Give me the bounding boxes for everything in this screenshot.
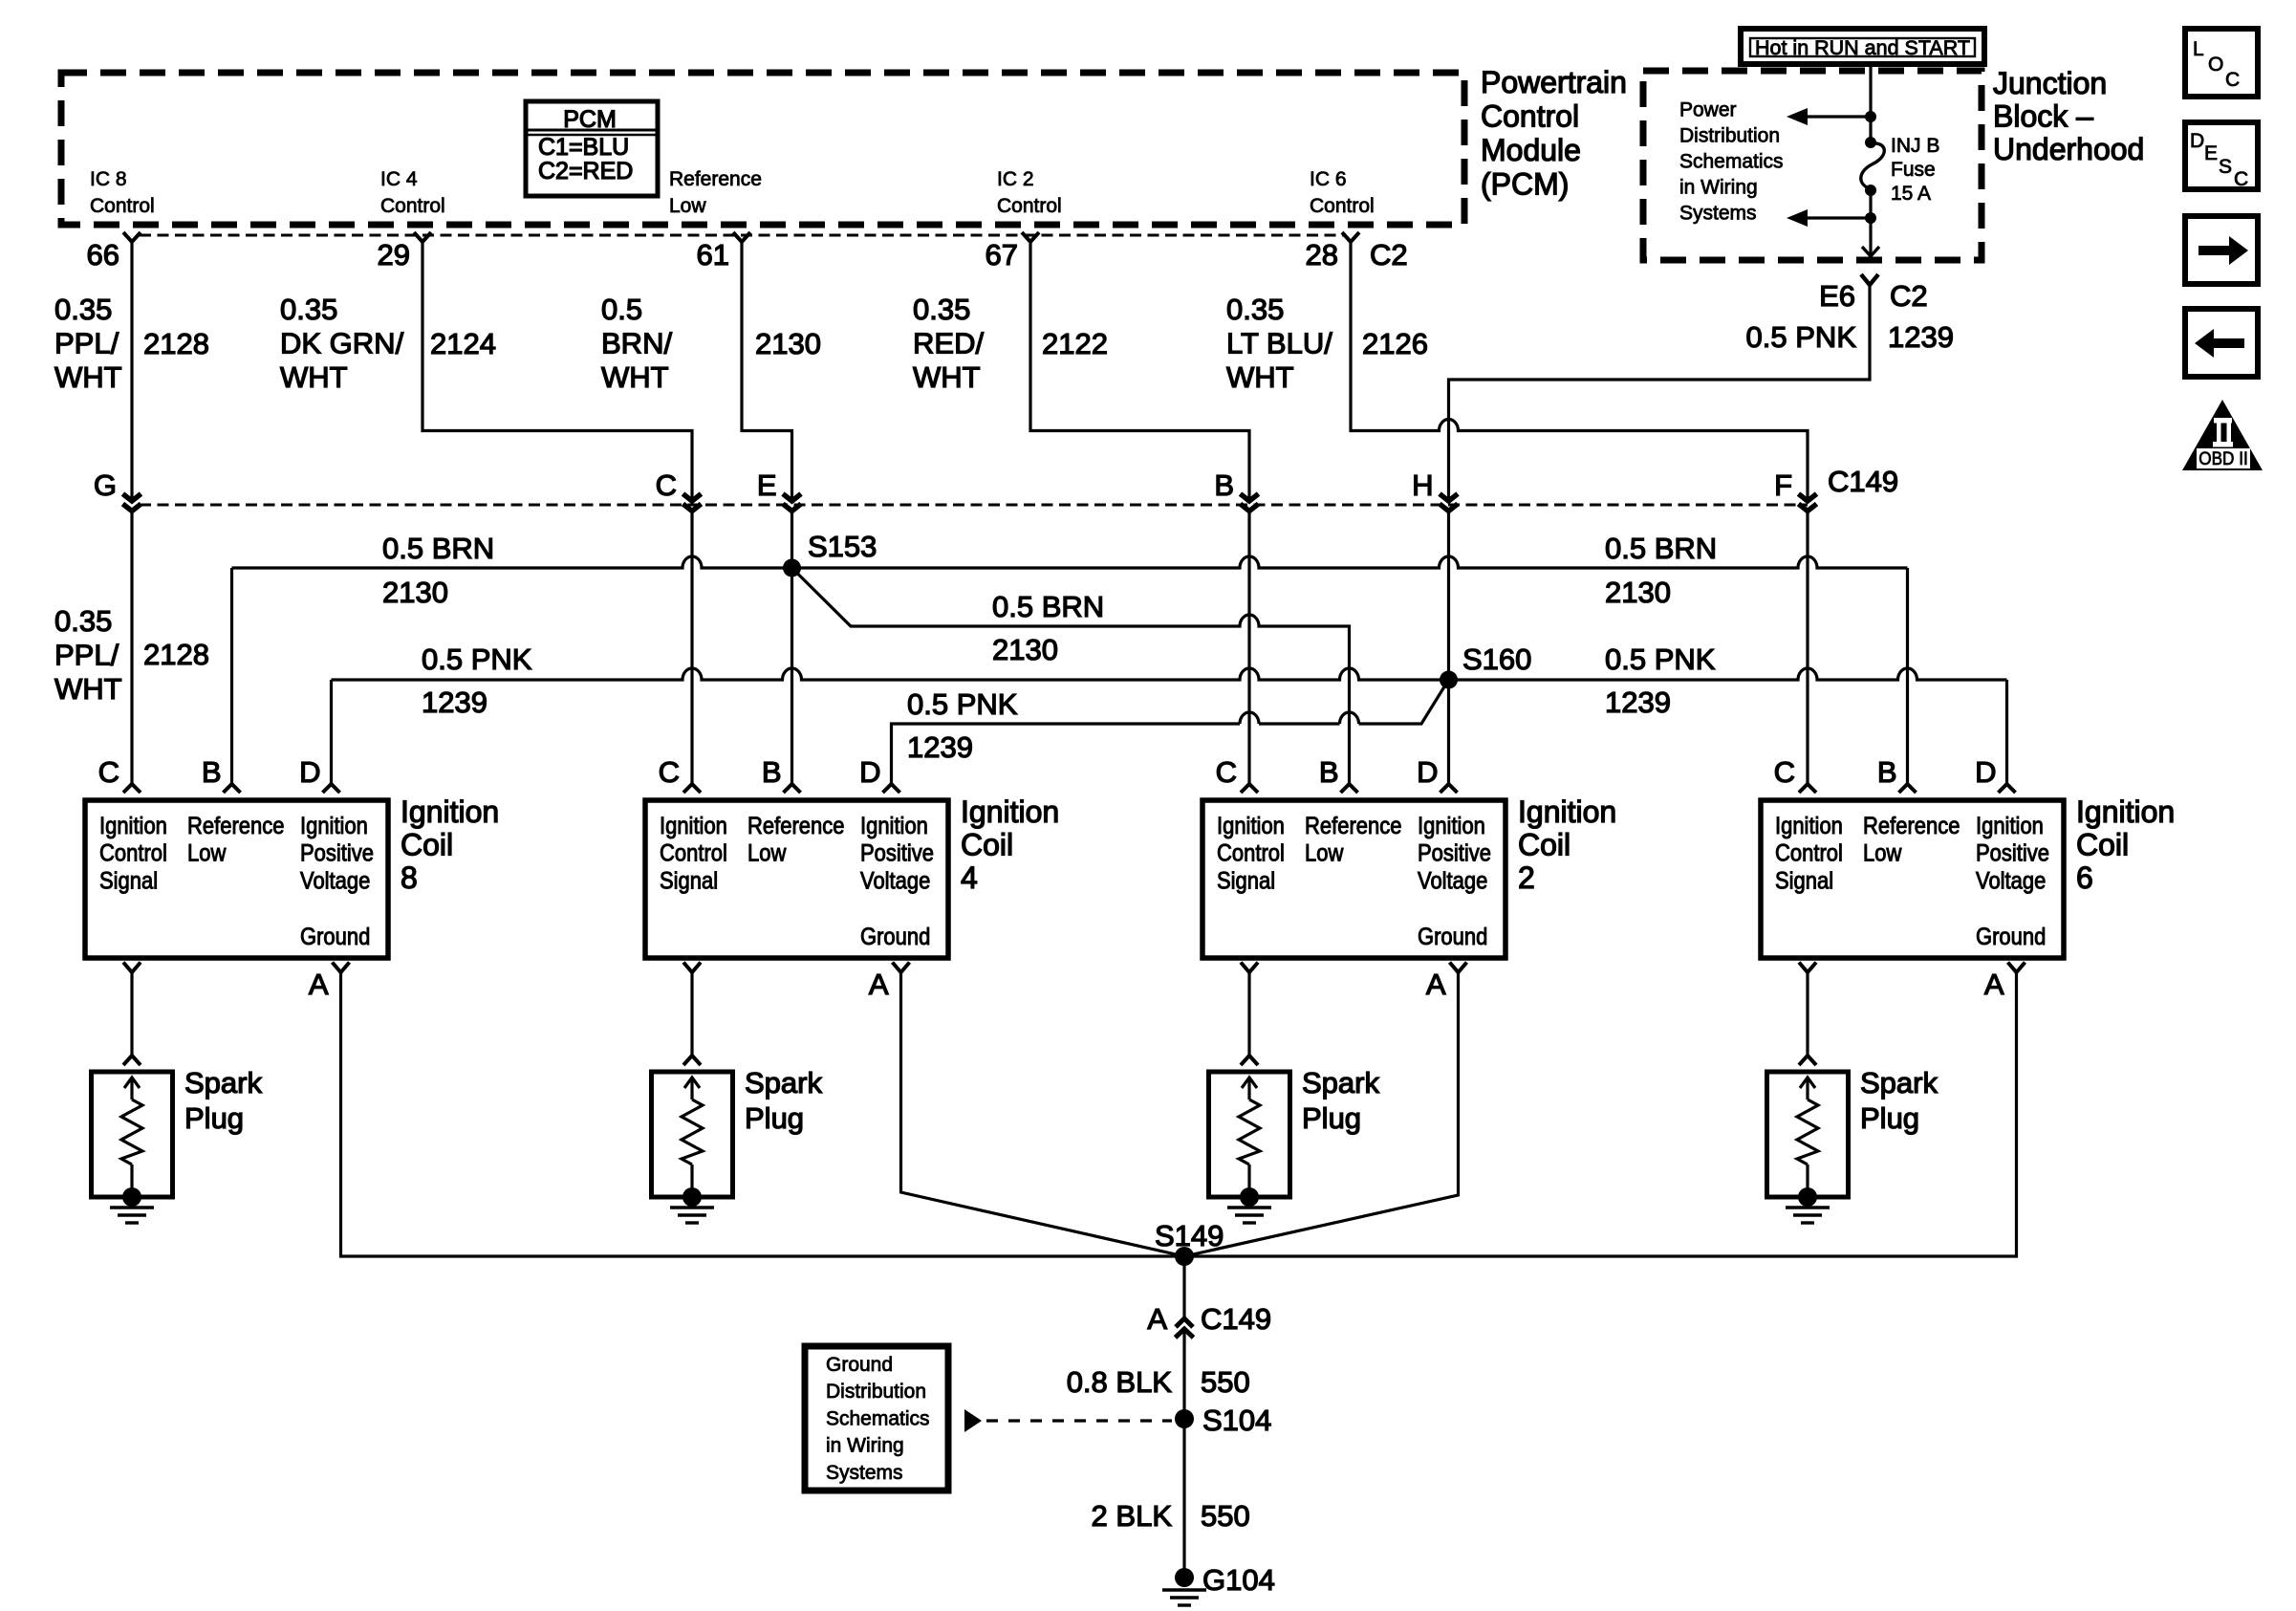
svg-text:A: A	[309, 968, 329, 1001]
coil 2 spark output fork below box	[1241, 963, 1258, 973]
svg-text:1239: 1239	[907, 730, 973, 764]
coil 4 internal label Reference Low	[747, 813, 844, 866]
svg-text:15 A: 15 A	[1891, 183, 1931, 205]
svg-text:B: B	[1877, 755, 1897, 789]
svg-text:0.35: 0.35	[54, 293, 112, 326]
svg-text:Systems: Systems	[826, 1462, 903, 1484]
coil 6 internal label Reference Low	[1863, 813, 1960, 866]
svg-text:4: 4	[961, 860, 978, 895]
spark plug ground symbol x=138	[110, 1206, 154, 1208]
coil 8 spark output fork below box	[123, 963, 141, 973]
svg-text:C: C	[2225, 69, 2240, 91]
spark plug internal arrow x=1891	[1806, 1078, 1809, 1099]
svg-text:Reference: Reference	[747, 813, 844, 839]
svg-text:E: E	[2204, 142, 2218, 164]
spark plug resistor element x=138	[121, 1099, 142, 1165]
coil 4 internal label Ground	[860, 924, 930, 950]
wire pin E to splice S153 to coil 4 pin B	[791, 512, 793, 784]
ignition feed bus 0.5 PNK 1239 from coil 8 D to coil 6 D	[332, 668, 2007, 680]
svg-text:Spark: Spark	[745, 1066, 822, 1099]
spark plug internal arrow x=724	[690, 1078, 693, 1099]
connector E6 C2 fork	[1861, 274, 1878, 285]
svg-text:S149: S149	[1155, 1219, 1224, 1252]
svg-text:Ignition: Ignition	[99, 813, 167, 839]
wire coil 2 to spark plug	[1247, 972, 1250, 1056]
svg-text:0.5 PNK: 0.5 PNK	[907, 687, 1018, 721]
svg-text:in Wiring: in Wiring	[826, 1435, 904, 1457]
wire 1239 from E6 to connector C149 pin H	[1449, 304, 1871, 498]
coil 2 internal label Ground	[1418, 924, 1487, 950]
svg-text:C2: C2	[1370, 238, 1408, 272]
svg-text:B: B	[1214, 468, 1234, 502]
splice S160	[1440, 671, 1458, 689]
svg-text:Reference: Reference	[669, 168, 762, 190]
svg-text:1239: 1239	[422, 686, 487, 719]
svg-text:C: C	[2234, 168, 2248, 190]
svg-text:Ignition: Ignition	[961, 795, 1059, 829]
wire coil 4 pin A to splice S149	[901, 972, 1185, 1256]
coil 4 pin D fork	[883, 784, 900, 793]
svg-text:0.5 PNK: 0.5 PNK	[422, 642, 532, 676]
svg-text:IC 4: IC 4	[380, 168, 418, 190]
coil 4 pin C fork	[683, 784, 701, 793]
ground bus wire from coil 8 A to coil 6 A	[341, 972, 2017, 1256]
svg-text:G104: G104	[1202, 1563, 1275, 1597]
svg-text:D: D	[1417, 755, 1438, 789]
svg-text:0.5 BRN: 0.5 BRN	[382, 532, 494, 565]
svg-text:Positive: Positive	[300, 839, 374, 866]
svg-text:WHT: WHT	[1226, 360, 1294, 394]
note Ground Distribution Schematics in Wiring Systems box	[805, 1346, 948, 1491]
svg-text:C2: C2	[1890, 279, 1928, 313]
svg-text:D: D	[1975, 755, 1996, 789]
wire 2126 pin 28 to connector C149 pin F	[1351, 242, 1808, 498]
junction node dot below fuse	[1865, 212, 1876, 224]
wire 2122 pin 67 to connector C149 pin B	[1030, 242, 1249, 498]
svg-text:Powertrain: Powertrain	[1481, 65, 1627, 99]
svg-text:WHT: WHT	[913, 360, 981, 394]
svg-text:BRN/: BRN/	[601, 327, 672, 360]
svg-text:2126: 2126	[1362, 327, 1428, 360]
svg-text:Signal: Signal	[660, 867, 718, 894]
coil 8 pin C fork	[123, 784, 141, 793]
svg-text:Systems: Systems	[1679, 203, 1757, 225]
svg-text:Ignition: Ignition	[1418, 813, 1485, 839]
svg-text:Control: Control	[1310, 195, 1375, 217]
forward arrow legend icon box	[2185, 216, 2258, 284]
spark plug resistor element x=724	[682, 1099, 703, 1165]
svg-text:2130: 2130	[382, 576, 448, 609]
svg-text:D: D	[299, 755, 320, 789]
svg-text:6: 6	[2076, 860, 2093, 895]
coil 2 pin B fork	[1341, 784, 1358, 793]
svg-text:Control: Control	[660, 839, 727, 866]
coil 6 pin D fork	[1999, 784, 2016, 793]
coil 6 spark output fork below box	[1799, 963, 1816, 973]
svg-text:Ground: Ground	[1418, 924, 1487, 950]
svg-text:Positive: Positive	[1418, 839, 1491, 866]
svg-text:2130: 2130	[1605, 576, 1671, 609]
svg-text:Ground: Ground	[826, 1354, 893, 1376]
svg-text:0.35: 0.35	[280, 293, 337, 326]
svg-text:H: H	[1412, 468, 1433, 502]
svg-text:Ignition: Ignition	[860, 813, 928, 839]
svg-text:A: A	[1426, 968, 1446, 1001]
svg-text:C: C	[656, 468, 677, 502]
svg-text:0.5 BRN: 0.5 BRN	[992, 590, 1104, 623]
svg-text:0.35: 0.35	[1226, 293, 1284, 326]
svg-text:DK GRN/: DK GRN/	[280, 327, 404, 360]
svg-text:67: 67	[986, 238, 1018, 272]
svg-text:28: 28	[1306, 238, 1338, 272]
wire S149 to connector C149 pin A	[1182, 1256, 1185, 1319]
spark plug internal arrow x=1307	[1247, 1078, 1250, 1099]
svg-text:Low: Low	[187, 839, 227, 866]
ignition coil 6 box	[1761, 800, 2064, 958]
svg-text:Coil: Coil	[401, 828, 453, 862]
svg-text:Plug: Plug	[1302, 1101, 1361, 1135]
coil 6 pin C fork	[1799, 784, 1816, 793]
spark plug internal arrow x=138	[130, 1078, 133, 1099]
svg-text:Reference: Reference	[187, 813, 284, 839]
svg-text:8: 8	[401, 860, 418, 895]
svg-text:Voltage: Voltage	[1976, 867, 2046, 894]
svg-text:WHT: WHT	[54, 672, 122, 706]
dashed reference arrow to S104	[964, 1409, 982, 1432]
coil 2 ground pin A fork below box	[1450, 963, 1467, 973]
svg-text:Control: Control	[90, 195, 155, 217]
svg-text:Ignition: Ignition	[1976, 813, 2044, 839]
svg-text:C2=RED: C2=RED	[538, 158, 633, 185]
wire pin F to ignition coil 6 pin C	[1806, 512, 1809, 784]
wire fuse to lower junction dot	[1869, 190, 1872, 218]
svg-text:WHT: WHT	[601, 360, 669, 394]
svg-text:Plug: Plug	[1860, 1101, 1919, 1135]
coil 6 ground pin A fork below box	[2008, 963, 2025, 973]
svg-text:Control: Control	[1775, 839, 1843, 866]
Junction Block - Underhood dashed outline box	[1643, 71, 1982, 260]
wire coil 2 pin A to splice S149	[1184, 972, 1459, 1256]
svg-text:Low: Low	[747, 839, 787, 866]
arrow to power distribution (upper)	[1805, 115, 1871, 118]
svg-text:2 BLK: 2 BLK	[1092, 1499, 1173, 1533]
wire coil 8 to spark plug	[130, 972, 133, 1056]
coil 8 internal label Ground	[300, 924, 370, 950]
svg-text:Signal: Signal	[1217, 867, 1275, 894]
svg-text:2: 2	[1518, 860, 1535, 895]
PCM pin 66 connector fork	[123, 232, 141, 242]
wire 2128 pin 66 to connector C149 pin G	[130, 242, 133, 498]
svg-text:0.5 PNK: 0.5 PNK	[1746, 320, 1857, 354]
svg-text:INJ B: INJ B	[1891, 135, 1939, 157]
connector C149 pin A separable symbol	[1176, 1318, 1193, 1327]
spark plug case ground dot x=138	[122, 1187, 141, 1207]
spark plug box at x=1891	[1767, 1072, 1849, 1197]
svg-text:Underhood: Underhood	[1993, 132, 2144, 166]
svg-text:D: D	[2190, 130, 2204, 152]
svg-text:IC 8: IC 8	[90, 168, 127, 190]
svg-text:Spark: Spark	[184, 1066, 262, 1099]
wire pin G to ignition coil 8 pin C	[130, 512, 133, 784]
spark plug ground symbol x=1891	[1786, 1206, 1830, 1208]
svg-text:Block –: Block –	[1993, 99, 2093, 134]
svg-text:L: L	[2193, 38, 2204, 60]
coil 8 pin B fork	[224, 784, 241, 793]
spark plug box at x=1307	[1209, 1072, 1290, 1197]
svg-text:Control: Control	[1481, 99, 1579, 134]
coil 4 pin B fork	[784, 784, 801, 793]
svg-text:0.35: 0.35	[913, 293, 970, 326]
svg-text:G: G	[94, 468, 117, 502]
wire pin H through splice S160 to coil 2 pin D	[1447, 512, 1450, 784]
spark plug case ground dot x=1891	[1798, 1187, 1817, 1207]
coil 2 internal label Reference Low	[1305, 813, 1401, 866]
svg-text:Power: Power	[1679, 99, 1737, 121]
svg-text:LT BLU/: LT BLU/	[1226, 327, 1332, 360]
svg-text:WHT: WHT	[54, 360, 122, 394]
svg-text:0.8 BLK: 0.8 BLK	[1067, 1365, 1173, 1399]
svg-text:Reference: Reference	[1305, 813, 1401, 839]
svg-text:B: B	[762, 755, 782, 789]
wire coil 6 to spark plug	[1806, 972, 1809, 1056]
wire from fuse to junction block edge with arrowhead	[1869, 218, 1872, 254]
svg-text:Ignition: Ignition	[660, 813, 727, 839]
svg-text:Ignition: Ignition	[401, 795, 499, 829]
svg-text:Distribution: Distribution	[826, 1381, 926, 1403]
svg-text:Low: Low	[1305, 839, 1344, 866]
svg-text:0.5: 0.5	[601, 293, 642, 326]
svg-text:Voltage: Voltage	[1418, 867, 1487, 894]
svg-text:D: D	[859, 755, 880, 789]
junction node dot above fuse	[1865, 111, 1876, 122]
svg-text:Schematics: Schematics	[826, 1407, 930, 1429]
svg-text:C1=BLU: C1=BLU	[538, 134, 629, 161]
ignition coil 2 box	[1202, 800, 1505, 958]
svg-text:Ignition: Ignition	[2076, 795, 2175, 829]
coil 6 internal label Ignition Control Signal	[1775, 813, 1843, 894]
coil 2 internal label Ignition Positive Voltage	[1418, 813, 1491, 894]
svg-text:S160: S160	[1462, 642, 1531, 676]
svg-text:RED/: RED/	[913, 327, 984, 360]
svg-text:Coil: Coil	[1518, 828, 1570, 862]
svg-text:PCM: PCM	[563, 106, 617, 133]
svg-text:1239: 1239	[1888, 320, 1954, 354]
svg-text:Voltage: Voltage	[300, 867, 370, 894]
svg-text:1239: 1239	[1605, 686, 1671, 719]
PCM pin 67 connector fork	[1022, 232, 1039, 242]
spark plug ground symbol x=724	[670, 1206, 714, 1208]
svg-text:PPL/: PPL/	[54, 639, 119, 672]
wire coil 4 to spark plug	[690, 972, 693, 1056]
svg-text:550: 550	[1201, 1499, 1250, 1533]
svg-text:29: 29	[378, 238, 410, 272]
coil 4 internal label Ignition Control Signal	[660, 813, 727, 894]
svg-text:PPL/: PPL/	[54, 327, 119, 360]
svg-text:C: C	[98, 755, 119, 789]
svg-text:550: 550	[1201, 1365, 1250, 1399]
coil 2 pin C fork	[1241, 784, 1258, 793]
spark plug case ground dot x=1307	[1240, 1187, 1259, 1207]
PCM pin 29 connector fork	[414, 232, 431, 242]
svg-text:E6: E6	[1819, 279, 1855, 313]
svg-text:Spark: Spark	[1860, 1066, 1938, 1099]
svg-text:Ignition: Ignition	[1518, 795, 1616, 829]
svg-text:Spark: Spark	[1302, 1066, 1379, 1099]
svg-text:2130: 2130	[755, 327, 821, 360]
svg-text:S104: S104	[1202, 1404, 1271, 1437]
connector C149 in-line dashed separator	[140, 504, 1808, 507]
wire junction dot to fuse	[1869, 117, 1872, 142]
svg-text:S153: S153	[808, 530, 877, 563]
svg-text:B: B	[1319, 755, 1339, 789]
coil 8 internal label Ignition Control Signal	[99, 813, 167, 894]
svg-text:Reference: Reference	[1863, 813, 1960, 839]
svg-text:Junction: Junction	[1993, 66, 2107, 100]
back arrow legend icon box	[2185, 309, 2258, 377]
svg-text:(PCM): (PCM)	[1481, 167, 1569, 202]
svg-text:Control: Control	[99, 839, 167, 866]
wire pin C to ignition coil 4 pin C	[690, 512, 693, 784]
coil 2 internal label Ignition Control Signal	[1217, 813, 1285, 894]
svg-text:Distribution: Distribution	[1679, 125, 1780, 147]
svg-text:2124: 2124	[430, 327, 496, 360]
svg-text:C149: C149	[1828, 465, 1898, 498]
svg-text:0.5 PNK: 0.5 PNK	[1605, 642, 1716, 676]
coil 8 internal label Reference Low	[187, 813, 284, 866]
svg-text:Plug: Plug	[745, 1101, 804, 1135]
spark plug box at x=724	[652, 1072, 733, 1197]
coil 4 internal label Ignition Positive Voltage	[860, 813, 934, 894]
svg-text:Positive: Positive	[1976, 839, 2049, 866]
coil 4 ground pin A fork below box	[893, 963, 910, 973]
spark plug ground symbol x=1307	[1227, 1206, 1271, 1208]
ground G104 dot	[1175, 1568, 1194, 1587]
PCM Powertrain Control Module dashed outline box	[61, 73, 1464, 225]
svg-text:Ignition: Ignition	[300, 813, 368, 839]
coil 8 ground pin A fork below box	[333, 963, 350, 973]
wire 2124 pin 29 to connector C149 pin C	[422, 242, 692, 498]
svg-text:E: E	[757, 468, 777, 502]
PCM connector in-line dashed separator	[140, 234, 1344, 237]
svg-text:IC 6: IC 6	[1310, 168, 1347, 190]
svg-text:Schematics: Schematics	[1679, 151, 1784, 173]
ignition coil 8 box	[85, 800, 388, 958]
svg-text:C: C	[659, 755, 680, 789]
splice S153	[783, 559, 801, 577]
wire 2130 pin 61 to connector C149 pin E	[742, 242, 792, 498]
svg-text:A: A	[869, 968, 889, 1001]
svg-text:F: F	[1774, 468, 1792, 502]
svg-text:0.5 BRN: 0.5 BRN	[1605, 532, 1717, 565]
svg-text:O: O	[2208, 54, 2223, 76]
svg-text:S: S	[2219, 156, 2232, 178]
ignition coil 4 box	[645, 800, 948, 958]
coil 6 internal label Ignition Positive Voltage	[1976, 813, 2049, 894]
svg-text:in Wiring: in Wiring	[1679, 177, 1758, 199]
svg-text:Low: Low	[1863, 839, 1902, 866]
LOC legend icon box	[2185, 29, 2258, 97]
svg-text:B: B	[202, 755, 222, 789]
svg-text:Control: Control	[997, 195, 1062, 217]
svg-text:2122: 2122	[1042, 327, 1108, 360]
svg-text:Voltage: Voltage	[860, 867, 930, 894]
svg-text:Plug: Plug	[184, 1101, 244, 1135]
svg-text:Coil: Coil	[2076, 828, 2129, 862]
svg-text:Fuse: Fuse	[1891, 159, 1936, 181]
coil 6 internal label Ground	[1976, 924, 2046, 950]
svg-text:C149: C149	[1201, 1302, 1271, 1336]
svg-text:OBD II: OBD II	[2199, 447, 2247, 468]
svg-text:Ground: Ground	[1976, 924, 2046, 950]
svg-text:Ignition: Ignition	[1217, 813, 1285, 839]
arrow to power distribution (lower)	[1805, 216, 1871, 219]
svg-text:Module: Module	[1481, 133, 1581, 167]
branch 0.5 BRN 2130 from S153 to coil 2 pin B	[792, 568, 1350, 784]
svg-text:Signal: Signal	[1775, 867, 1833, 894]
PCM connector color legend box	[526, 101, 658, 196]
ground G104 symbol	[1162, 1588, 1206, 1591]
reference-low bus 0.5 BRN 2130 from coil 8 B to coil 6 B	[232, 556, 1908, 568]
spark plug resistor element x=1307	[1239, 1099, 1260, 1165]
svg-text:0.35: 0.35	[54, 604, 112, 638]
coil 6 pin B fork	[1899, 784, 1917, 793]
coil 2 pin D fork	[1440, 784, 1458, 793]
branch 0.5 PNK 1239 from S160 to coil 4 pin D	[892, 680, 1449, 784]
PCM pin 28 connector fork	[1342, 232, 1359, 242]
svg-text:Ignition: Ignition	[1775, 813, 1843, 839]
svg-text:Signal: Signal	[99, 867, 158, 894]
wire pin B to ignition coil 2 pin C	[1247, 512, 1250, 784]
PCM pin 61 connector fork	[733, 232, 750, 242]
svg-text:2128: 2128	[143, 638, 209, 671]
svg-text:2130: 2130	[992, 633, 1058, 666]
svg-text:2128: 2128	[143, 327, 209, 360]
svg-text:C: C	[1774, 755, 1795, 789]
splice S104	[1175, 1409, 1194, 1428]
svg-text:Positive: Positive	[860, 839, 934, 866]
svg-text:Ground: Ground	[300, 924, 370, 950]
svg-text:A: A	[1147, 1302, 1167, 1336]
svg-text:Control: Control	[380, 195, 445, 217]
svg-text:A: A	[1984, 968, 2004, 1001]
svg-text:66: 66	[87, 238, 119, 272]
svg-text:IC 2: IC 2	[997, 168, 1034, 190]
coil 4 spark output fork below box	[683, 963, 701, 973]
coil 8 internal label Ignition Positive Voltage	[300, 813, 374, 894]
svg-text:61: 61	[697, 238, 729, 272]
svg-text:WHT: WHT	[280, 360, 348, 394]
coil 8 pin D fork	[323, 784, 340, 793]
splice S149	[1175, 1247, 1194, 1266]
wire from Hot feed into junction block	[1869, 64, 1872, 117]
OBD II triangle icon	[2182, 400, 2263, 470]
svg-text:Control: Control	[1217, 839, 1285, 866]
svg-text:Hot in RUN and START: Hot in RUN and START	[1755, 36, 1970, 59]
Hot in RUN and START power box	[1741, 29, 1984, 64]
svg-text:Low: Low	[669, 195, 706, 217]
spark plug box at x=138	[92, 1072, 173, 1197]
DESC legend icon box	[2185, 122, 2258, 189]
svg-text:Ground: Ground	[860, 924, 930, 950]
svg-text:Coil: Coil	[961, 828, 1013, 862]
wire 2 BLK 550 from S104 to G104	[1182, 1419, 1185, 1578]
svg-text:C: C	[1216, 755, 1237, 789]
spark plug case ground dot x=724	[682, 1187, 702, 1207]
fuse INJ B 15 A symbol	[1865, 137, 1876, 148]
branch PNK hop over coil2 wires	[1240, 712, 1259, 724]
spark plug resistor element x=1891	[1797, 1099, 1818, 1165]
wire 0.8 BLK 550 from C149 A to S104	[1182, 1329, 1185, 1419]
